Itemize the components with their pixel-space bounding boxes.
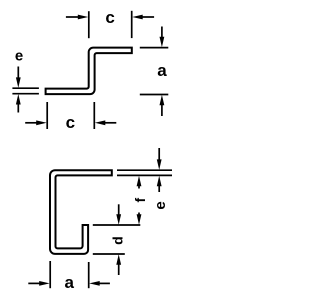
dim d: lower arrowhead (up) — [116, 254, 121, 264]
dim d: upper arrowhead (down) — [116, 214, 121, 225]
dim a (bottom figure): left arrowhead — [39, 281, 50, 286]
svg-text:e: e — [152, 201, 169, 209]
svg-text:c: c — [66, 113, 75, 132]
dim c top: left arrowhead — [78, 15, 89, 20]
dim a right: upper arrow wire — [161, 27, 163, 40]
dim a right: lower arrow wire — [161, 104, 163, 116]
dim f: lower arrowhead (down) — [137, 214, 142, 225]
dim c top: right extension line — [131, 11, 133, 38]
dim a (bottom figure): right arrowhead — [89, 281, 100, 286]
dim e: lower arrowhead (up) — [16, 94, 21, 105]
dim c bottom: left arrowhead — [36, 120, 47, 125]
dim e (bottom figure): bottom extension line — [117, 174, 172, 176]
dim e (bottom figure): lower arrow wire — [158, 185, 160, 192]
dim f: upper arrowhead (up) — [137, 176, 142, 187]
dim d: bottom extension line — [93, 253, 125, 255]
dim c bottom: right arrow wire — [104, 122, 116, 124]
dim a (bottom figure): right arrow wire — [99, 282, 110, 284]
dim c bottom: right extension line — [93, 102, 95, 129]
svg-text:f: f — [132, 198, 148, 203]
dim e: top extension line — [12, 87, 39, 89]
svg-text:c: c — [105, 8, 114, 27]
dim f: upper arrow wire — [138, 185, 140, 189]
dim e: upper arrowhead (down) — [16, 77, 21, 88]
dim a (bottom figure): right extension line — [88, 262, 90, 288]
dim c bottom: left arrow wire — [25, 122, 38, 124]
dim a (bottom figure): left extension line — [49, 261, 51, 288]
svg-text:d: d — [109, 236, 125, 245]
dim c bottom: left extension line — [46, 102, 48, 129]
dim e: bottom extension line — [12, 93, 39, 95]
dim c bottom: right arrowhead — [95, 120, 106, 125]
C-profile sheet outline — [50, 170, 112, 254]
svg-text:e: e — [15, 47, 23, 64]
dim e (bottom figure): upper arrowhead (down) — [157, 159, 162, 170]
dim a (bottom figure): left arrow wire — [28, 282, 41, 284]
dim c top: right arrow wire — [141, 16, 154, 18]
dim c top: left arrow wire — [66, 16, 80, 18]
dim e (bottom figure): upper arrow wire — [158, 148, 160, 161]
dim c top: left extension line — [88, 11, 90, 38]
svg-text:a: a — [64, 273, 74, 292]
dim a right: lower arrowhead (up) — [160, 95, 165, 106]
dim e (bottom figure): lower arrowhead (up) — [157, 176, 162, 187]
dim a right: upper arrowhead (down) — [160, 37, 165, 48]
dim f: lower arrow wire — [138, 213, 140, 217]
dim c top: right arrowhead — [132, 15, 143, 20]
dim e: lower arrow wire — [17, 103, 19, 113]
dim d: lower arrow wire — [118, 263, 120, 275]
svg-text:a: a — [157, 61, 167, 80]
dim d: top extension line — [93, 224, 141, 226]
dim d: upper arrow wire — [118, 204, 120, 216]
dim a right: top extension line — [140, 47, 169, 49]
Z-profile sheet outline — [46, 48, 132, 95]
dim a right: bottom extension line — [140, 94, 169, 96]
dim e: upper arrow wire — [17, 67, 19, 80]
dim e (bottom figure): top extension line — [117, 169, 172, 171]
